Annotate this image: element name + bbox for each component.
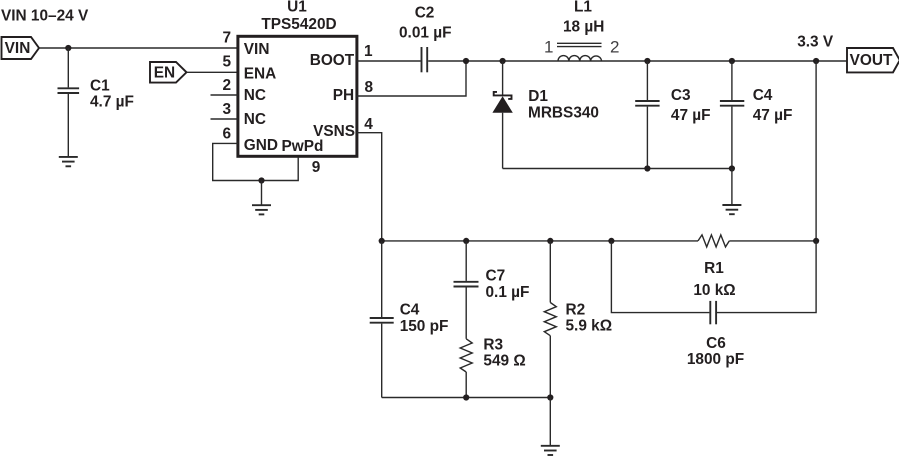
svg-text:47 µF: 47 µF: [753, 107, 793, 124]
svg-text:U1: U1: [287, 0, 307, 15]
node R3 bottom junction: [463, 394, 469, 400]
input tag EN: [150, 62, 187, 83]
wire BOOT to C2: [357, 60, 421, 62]
wire D1 bottom: [502, 113, 504, 169]
output tag VOUT: [847, 48, 899, 72]
svg-text:VOUT: VOUT: [850, 52, 893, 69]
svg-text:VIN: VIN: [5, 40, 31, 57]
node D1 top junction: [500, 58, 506, 64]
wire ground stem below C4: [731, 169, 733, 206]
node C3 bottom junction: [644, 165, 650, 171]
wire C6 loop right: [717, 241, 816, 313]
node C2/PH junction: [463, 58, 469, 64]
wire PH to riser: [357, 61, 467, 96]
capacitor C4 150 pF: [370, 301, 449, 335]
wire feedback rail right: [729, 240, 816, 242]
svg-text:MRBS340: MRBS340: [528, 104, 599, 121]
wire C4 150pF bottom: [381, 324, 383, 398]
wire R2 bottom: [549, 336, 551, 398]
svg-text:4.7 µF: 4.7 µF: [90, 93, 134, 110]
svg-text:18 µH: 18 µH: [563, 18, 604, 35]
svg-text:3: 3: [222, 101, 231, 118]
ground below C4: [722, 205, 741, 214]
capacitor C6: [687, 301, 744, 368]
node C7 branch junction: [463, 238, 469, 244]
wire C6 loop left/bottom: [611, 241, 709, 313]
svg-text:PH: PH: [333, 87, 354, 104]
svg-text:7: 7: [222, 30, 231, 47]
svg-text:VIN 10–24 V: VIN 10–24 V: [1, 8, 89, 25]
pin 3 stub: [211, 118, 238, 120]
node VSNS rail left junction: [379, 238, 385, 244]
wire bottom feedback rail: [382, 397, 551, 399]
capacitor C1: [58, 78, 134, 111]
pin 2 stub: [211, 94, 238, 96]
node C3 top junction: [644, 58, 650, 64]
node R2 branch junction: [547, 238, 553, 244]
capacitor C3: [635, 87, 710, 124]
svg-text:2: 2: [222, 77, 231, 94]
svg-text:3.3 V: 3.3 V: [797, 34, 834, 51]
node C4 bottom junction: [729, 165, 735, 171]
svg-text:GND: GND: [244, 137, 278, 154]
svg-text:R3: R3: [483, 336, 503, 353]
wire C1 bottom: [67, 94, 69, 157]
svg-text:2: 2: [610, 37, 619, 56]
svg-text:ENA: ENA: [244, 65, 276, 82]
capacitor C4: [720, 87, 792, 124]
svg-text:C4: C4: [753, 87, 773, 104]
capacitor C7: [454, 268, 530, 302]
svg-text:C4: C4: [400, 301, 420, 318]
node C6 branch junction: [608, 238, 614, 244]
ground bottom: [541, 446, 560, 455]
wire C2 to VOUT rail: [428, 60, 847, 62]
svg-text:10 kΩ: 10 kΩ: [693, 282, 735, 299]
resistor R3: [460, 336, 525, 372]
wire C3 bottom: [646, 107, 648, 169]
wire VIN to pin 7: [39, 47, 238, 49]
wire ground stem: [261, 181, 263, 206]
svg-text:R1: R1: [704, 260, 724, 277]
node VOUT junction: [813, 58, 819, 64]
ground below PwPd: [252, 205, 271, 214]
svg-text:VIN: VIN: [244, 41, 270, 58]
wire R3 bottom: [465, 372, 467, 398]
svg-text:NC: NC: [244, 111, 266, 128]
svg-text:1: 1: [364, 43, 373, 60]
svg-text:0.01 µF: 0.01 µF: [399, 25, 452, 42]
node rail right junction: [813, 238, 819, 244]
svg-text:EN: EN: [154, 65, 175, 82]
wire C4 150pF top: [381, 241, 383, 317]
svg-text:4: 4: [364, 116, 373, 133]
wire D1 top: [502, 61, 504, 95]
wire C7 to R3: [465, 287, 467, 338]
svg-text:C3: C3: [671, 87, 691, 104]
wire C4 bottom: [731, 107, 733, 169]
svg-text:BOOT: BOOT: [310, 52, 355, 69]
ground below C1: [59, 157, 78, 166]
resistor R2: [544, 301, 612, 335]
wire VOUT drop to feedback rail: [815, 61, 817, 241]
wire C7 top: [465, 241, 467, 281]
svg-text:NC: NC: [244, 87, 266, 104]
capacitor C2: [399, 5, 452, 73]
wire GND loop to PwPd: [213, 143, 299, 180]
svg-text:549 Ω: 549 Ω: [483, 352, 525, 369]
wire R2 top: [549, 241, 551, 303]
wire ground stem bottom: [549, 398, 551, 446]
svg-text:R2: R2: [566, 301, 586, 318]
IC U1 TPS5420D box: [238, 36, 357, 156]
node R2 bottom junction: [547, 394, 553, 400]
svg-text:TPS5420D: TPS5420D: [261, 16, 336, 33]
svg-text:C7: C7: [486, 268, 506, 285]
node VIN/C1 junction: [65, 45, 71, 51]
svg-text:47 µF: 47 µF: [671, 107, 711, 124]
svg-text:PwPd: PwPd: [282, 138, 324, 155]
svg-text:1: 1: [544, 37, 553, 56]
svg-text:5.9 kΩ: 5.9 kΩ: [566, 318, 613, 335]
wire bottom rail D1-C3-C4: [503, 168, 732, 170]
svg-text:1800 pF: 1800 pF: [687, 351, 744, 368]
wire EN to pin 5: [187, 71, 239, 73]
svg-text:D1: D1: [528, 88, 548, 105]
resistor R1: [693, 235, 735, 299]
svg-text:150 pF: 150 pF: [400, 318, 449, 335]
svg-text:0.1 µF: 0.1 µF: [486, 284, 530, 301]
svg-text:9: 9: [312, 159, 321, 176]
diode D1 MRBS340 (schottky): [492, 88, 599, 121]
svg-text:C6: C6: [706, 335, 726, 352]
svg-text:VSNS: VSNS: [313, 123, 355, 140]
node C4 top junction: [729, 58, 735, 64]
node PwPd ground junction: [258, 177, 264, 183]
wire feedback rail left: [382, 240, 698, 242]
svg-text:C1: C1: [90, 78, 110, 95]
svg-text:L1: L1: [574, 0, 592, 15]
wire C4 top: [731, 61, 733, 100]
svg-text:8: 8: [365, 79, 374, 96]
svg-text:6: 6: [222, 125, 231, 142]
inductor L1: [557, 0, 604, 61]
wire C3 top: [646, 61, 648, 100]
wire C1 top: [67, 48, 69, 87]
svg-text:5: 5: [222, 54, 231, 71]
input tag VIN: [2, 37, 40, 59]
svg-text:C2: C2: [415, 5, 435, 22]
wire VSNS to feedback rail: [357, 133, 382, 241]
